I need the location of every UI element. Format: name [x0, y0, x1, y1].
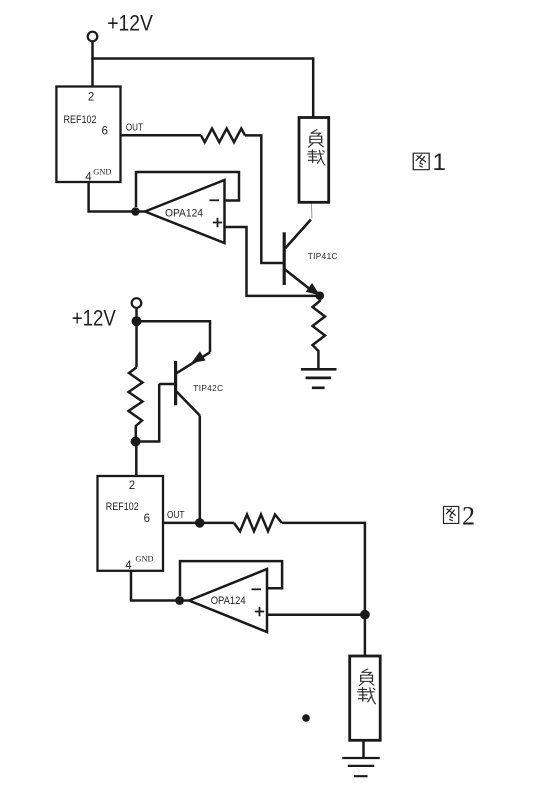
wire rail down to load top	[312, 57, 315, 118]
node junction at op-amp U4 output	[175, 596, 184, 605]
transistor Q1 emitter	[285, 270, 315, 294]
svg-text:+12V: +12V	[72, 305, 116, 330]
resistor R4	[234, 515, 282, 532]
load box LD1 负载	[299, 118, 329, 203]
node junction OUT2	[195, 518, 205, 528]
op-amp U2 plus sign	[213, 218, 222, 227]
svg-text:OPA124: OPA124	[211, 595, 246, 607]
ground GND2	[342, 758, 379, 776]
wire U2 feedback loop	[136, 172, 239, 207]
svg-text:2: 2	[129, 480, 135, 492]
transistor Q2 TIP42C emitter	[177, 352, 211, 373]
wire U1 pin 4 to op-amp output node	[89, 182, 145, 212]
svg-text:TIP41C: TIP41C	[308, 252, 338, 261]
node junction base B2	[131, 437, 141, 447]
node junction plus N2	[360, 610, 370, 620]
wire R1 to TIP41C base	[245, 135, 284, 263]
svg-text:REF102: REF102	[64, 114, 97, 126]
svg-text:1: 1	[433, 149, 446, 176]
node junction at op-amp U2 output	[131, 207, 140, 216]
resistor R1	[201, 129, 245, 143]
wire node to U3 pin 2	[135, 442, 138, 478]
load LD1 text 负	[308, 130, 323, 148]
ground GND1	[301, 369, 337, 388]
wire R4 to plus node	[282, 523, 365, 611]
wire U4 plus input to load node	[267, 613, 361, 616]
load LD2 text 负	[359, 669, 374, 686]
svg-text:+12V: +12V	[107, 11, 153, 36]
IC U1 REF102	[56, 87, 120, 183]
op-amp U4 minus sign	[252, 588, 262, 590]
wire Q2 collector to OUT node	[199, 416, 202, 523]
wire LD2 to ground	[362, 740, 365, 757]
wire U1 pin 6 to resistor R1	[121, 134, 202, 137]
wire +12V rail to load	[91, 57, 313, 60]
transistor Q2 base wire	[159, 383, 175, 386]
wire node to resistor R3	[135, 321, 138, 367]
svg-text:2: 2	[462, 501, 475, 530]
svg-text:6: 6	[144, 513, 150, 525]
svg-text:6: 6	[102, 125, 108, 137]
wire U3 pin 4 to op-amp output node	[131, 571, 189, 601]
wire node to Q2 base	[136, 384, 160, 442]
op-amp U2 OPA124 triangle	[145, 180, 225, 243]
op-amp U2 minus sign	[210, 199, 220, 201]
svg-text:GND: GND	[135, 555, 153, 564]
svg-text:OPA124: OPA124	[165, 208, 203, 220]
terminal +12V (circuit 1)	[88, 32, 98, 42]
resistor R2	[313, 300, 326, 369]
svg-text:GND: GND	[93, 167, 111, 176]
resistor R3	[129, 367, 143, 441]
stray node dot	[302, 714, 310, 722]
svg-text:TIP42C: TIP42C	[193, 384, 223, 393]
terminal +12V (circuit 2)	[132, 298, 142, 308]
figure label 图2	[444, 506, 459, 523]
svg-text:REF102: REF102	[106, 501, 139, 513]
transistor Q2 base bar	[174, 361, 177, 405]
transistor Q1 collector	[285, 220, 311, 249]
wire +12V to REF102 pin 2	[91, 41, 94, 87]
transistor Q2 emitter arrow	[191, 351, 205, 363]
load LD2 text 载	[358, 687, 376, 703]
svg-text:4: 4	[125, 560, 132, 572]
node junction below terminal	[132, 316, 142, 326]
op-amp U4 plus sign	[255, 607, 264, 616]
thin link load to Q1 collector	[310, 202, 313, 218]
wire terminal to node	[135, 308, 138, 321]
wire OUT node to resistor R4	[203, 522, 234, 525]
figure label 图1	[413, 153, 429, 170]
node junction emitter E1	[316, 291, 325, 300]
wire node to TIP42C emitter	[137, 321, 211, 352]
transistor Q2 collector	[177, 392, 200, 416]
IC U3 REF102	[98, 476, 164, 571]
load LD1 text 载	[308, 150, 325, 165]
wire U3 pin 6 to OUT node	[163, 522, 196, 525]
svg-text:OUT: OUT	[167, 510, 185, 521]
transistor Q1 TIP41C base bar	[283, 232, 286, 285]
svg-text:2: 2	[88, 92, 94, 104]
wire node to load LD2	[364, 618, 367, 657]
svg-text:OUT: OUT	[126, 123, 143, 134]
wire U4 feedback loop	[180, 561, 282, 596]
op-amp U4 OPA124 triangle	[189, 569, 267, 632]
svg-text:4: 4	[85, 171, 92, 183]
load box LD2 负载	[350, 656, 381, 740]
wire U2 plus input to emitter node	[225, 227, 317, 296]
transistor Q1 emitter arrow	[306, 283, 320, 295]
